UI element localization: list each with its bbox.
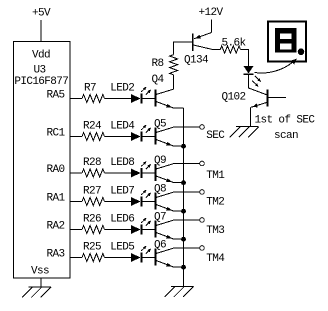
svg-text:R28: R28 <box>83 157 101 169</box>
terminal TM2 <box>200 190 225 209</box>
junction Q7 emitter/bus <box>181 237 186 242</box>
wire R24 to LED4 <box>105 136 132 138</box>
transistor Q134 <box>184 33 213 67</box>
LED LED2 <box>110 83 151 104</box>
transistor Q9 <box>154 155 174 183</box>
svg-text:Q8: Q8 <box>154 184 166 196</box>
svg-text:RA0: RA0 <box>47 164 65 176</box>
svg-text:Vss: Vss <box>31 266 49 278</box>
transistor Q7 <box>154 212 174 240</box>
wire R28 to LED8 <box>105 172 132 174</box>
transistor Q6 <box>154 240 174 268</box>
wire RA2 pin to R26 <box>70 229 82 231</box>
wire LED4 cathode to Q5 base <box>142 136 155 138</box>
wire Q8 emitter to bus <box>174 210 184 212</box>
svg-text:+5V: +5V <box>32 8 51 20</box>
wire RC1 pin to R24 <box>70 136 82 138</box>
wire R25 to LED5 <box>105 257 132 259</box>
svg-text:R26: R26 <box>83 214 101 226</box>
wire Q4 emitter to bus <box>174 107 184 109</box>
svg-text:Vdd: Vdd <box>32 50 50 62</box>
terminal TM4 <box>200 246 226 265</box>
svg-text:LED6: LED6 <box>110 214 134 226</box>
wire RA3 pin to R25 <box>70 257 82 259</box>
svg-text:LED5: LED5 <box>110 242 134 254</box>
7-segment display <box>268 22 306 62</box>
svg-text:R24: R24 <box>83 121 102 133</box>
wire RA1 pin to R27 <box>70 201 82 203</box>
terminal TM3 <box>200 218 225 237</box>
wire Q5 emitter to bus <box>174 145 184 147</box>
svg-text:R7: R7 <box>84 83 96 95</box>
junction Q5 emitter/bus <box>181 144 186 149</box>
svg-text:Q9: Q9 <box>154 155 166 167</box>
wire Vss to ground <box>40 278 42 287</box>
wire +5V to Vdd <box>40 20 42 42</box>
svg-text:Q5: Q5 <box>154 119 166 131</box>
resistor R8 <box>152 55 178 75</box>
wire Q6 emitter to bus <box>174 266 184 268</box>
wire RA5 pin to R7 <box>70 98 82 100</box>
svg-text:+12V: +12V <box>199 7 224 19</box>
svg-text:TM3: TM3 <box>206 225 224 237</box>
ground (Q102 emitter) <box>230 127 259 138</box>
wire LED6 cathode to Q7 base <box>142 229 155 231</box>
transistor Q4 <box>152 74 175 108</box>
resistor R7 <box>82 83 105 103</box>
resistor 5.6k <box>220 38 246 54</box>
svg-text:LED8: LED8 <box>110 157 134 169</box>
arrow LED to display decimal point <box>255 59 298 74</box>
IC U3 PIC16F877 <box>14 42 71 279</box>
wire LED5 cathode to Q6 base <box>142 257 155 259</box>
svg-text:Q102: Q102 <box>222 92 246 104</box>
svg-text:Q134: Q134 <box>184 55 209 67</box>
wire Q4 collector to R8 <box>173 75 175 89</box>
resistor R28 <box>82 157 105 177</box>
svg-text:TM2: TM2 <box>206 197 224 209</box>
svg-text:RA5: RA5 <box>47 90 65 102</box>
LED LED5 <box>110 242 151 263</box>
svg-text:Q6: Q6 <box>154 240 166 252</box>
svg-text:LED7: LED7 <box>110 186 134 198</box>
node +5V <box>32 8 51 20</box>
LED LED7 <box>110 186 151 207</box>
wire Q8 collector to terminal TM2 <box>174 191 199 193</box>
LED LED8 <box>110 157 151 178</box>
wire LED cathode to Q102 collector <box>249 74 267 94</box>
svg-text:SEC: SEC <box>206 130 225 142</box>
wire Q9 collector to terminal TM1 <box>174 163 199 165</box>
junction Q9 emitter/bus <box>181 180 186 185</box>
wire Q6 collector to terminal TM4 <box>174 247 199 249</box>
LED LED6 <box>110 214 151 235</box>
transistor Q5 <box>154 119 174 147</box>
svg-text:1st of SEC: 1st of SEC <box>255 115 316 127</box>
LED LED4 <box>110 121 151 142</box>
wire Q7 emitter to bus <box>174 238 184 240</box>
svg-text:RA1: RA1 <box>47 193 66 205</box>
svg-text:LED4: LED4 <box>110 121 135 133</box>
svg-text:Q7: Q7 <box>154 212 166 224</box>
svg-text:5.6k: 5.6k <box>222 38 247 50</box>
wire LED7 cathode to Q8 base <box>142 201 155 203</box>
wire R26 to LED6 <box>105 229 132 231</box>
LED (digit select, vertical) <box>244 66 262 87</box>
svg-text:R25: R25 <box>83 242 101 254</box>
ground (Vss) <box>22 287 51 298</box>
svg-text:PIC16F877: PIC16F877 <box>14 76 68 88</box>
resistor R24 <box>82 121 105 141</box>
svg-text:RA2: RA2 <box>47 221 65 233</box>
wire 5.6k to LED anode <box>241 50 249 67</box>
wire Q5 collector to terminal SEC <box>174 126 199 128</box>
node +12V <box>199 7 224 19</box>
junction Q8 emitter/bus <box>181 209 186 214</box>
svg-text:RC1: RC1 <box>47 128 66 140</box>
svg-text:scan: scan <box>274 130 298 142</box>
transistor Q102 <box>222 90 287 108</box>
wire R7 to LED2 <box>105 98 132 100</box>
terminal SEC <box>200 125 226 142</box>
wire LED8 cathode to Q9 base <box>142 172 155 174</box>
svg-text:Q4: Q4 <box>152 74 165 86</box>
wire R27 to LED7 <box>105 201 132 203</box>
wire Q134 collector to 5.6k <box>213 49 221 51</box>
resistor R27 <box>82 186 105 206</box>
wire LED2 cathode to Q4 base <box>142 98 155 100</box>
resistor R26 <box>82 214 105 234</box>
note: 1st of SEC scan <box>255 115 316 142</box>
wire +12V to Q134 emitter <box>211 20 213 33</box>
terminal TM1 <box>200 161 226 182</box>
resistor R25 <box>82 242 105 262</box>
svg-text:U3: U3 <box>34 65 46 77</box>
wire RA0 pin to R28 <box>70 172 82 174</box>
junction Q6 emitter/bus <box>181 265 186 270</box>
svg-text:TM1: TM1 <box>206 170 225 182</box>
svg-text:LED2: LED2 <box>110 83 134 95</box>
wire R8 to Q134 base <box>174 42 192 54</box>
transistor Q8 <box>154 184 174 212</box>
ground (emitter bus) <box>165 287 194 298</box>
wire Q102 emitter to ground <box>250 107 252 126</box>
svg-text:R27: R27 <box>83 186 101 198</box>
svg-text:RA3: RA3 <box>47 249 65 261</box>
svg-text:TM4: TM4 <box>206 253 225 265</box>
svg-text:R8: R8 <box>152 58 164 70</box>
wire emitter bus <box>183 108 185 286</box>
wire Q9 emitter to bus <box>174 182 184 184</box>
wire Q7 collector to terminal TM3 <box>174 219 199 221</box>
